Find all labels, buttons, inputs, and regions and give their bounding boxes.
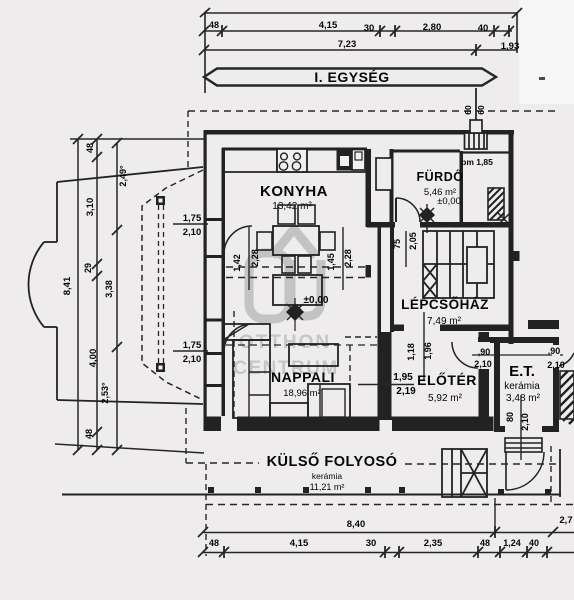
corridor right vertical [559,449,561,497]
bath door opening white [395,221,420,229]
annex left wall lower [56,327,58,400]
wall stub kitchen [366,265,372,278]
chimney block top [465,120,488,149]
corridor bottom dashed [206,504,574,506]
right wall notch [514,251,520,261]
nappali sofa top arm [223,324,270,340]
svg-text:2,49°: 2,49° [118,165,128,187]
watermark logo C [291,260,321,316]
kitchen dim line right [342,227,344,290]
svg-text:ELŐTÉR: ELŐTÉR [417,371,477,388]
ticks top chains [199,8,522,56]
svg-text:8,40: 8,40 [347,519,366,530]
nappali table [289,344,338,366]
top dimension line 0 [204,12,517,14]
svg-text:FÜRDŐ: FÜRDŐ [417,169,464,184]
svg-text:29: 29 [83,263,93,273]
opening 2 jamb mid [204,352,226,355]
svg-text:40: 40 [529,538,539,548]
left chain top end line [70,138,204,140]
svg-text:11,21 m²: 11,21 m² [310,482,345,492]
svg-text:1,24: 1,24 [503,538,521,548]
svg-text:2,7: 2,7 [559,515,572,526]
eloter door to ET opening [477,342,490,369]
svg-text:2,53°: 2,53° [100,382,110,404]
bath door arc [396,198,420,222]
svg-text:40: 40 [478,23,489,34]
svg-text:1,95: 1,95 [393,372,413,383]
annex bottom edge [57,400,203,404]
dot after banner [539,77,545,80]
bottom chain ticks [198,526,558,558]
ET exterior steps [505,438,542,452]
main outer top wall [204,130,515,135]
svg-text:KONYHA: KONYHA [260,183,328,200]
ET exterior door arc [506,452,544,490]
svg-text:I. EGYSÉG: I. EGYSÉG [314,69,389,85]
svg-text:3,10: 3,10 [85,198,96,217]
x mark under chimney [497,212,511,226]
svg-text:48: 48 [480,538,490,548]
hatched chimney right [488,188,504,220]
ET exit dim line [520,395,522,460]
bath drain diamond [420,204,434,233]
kitchen dashed boundary 1 [226,266,365,268]
svg-text:2,80: 2,80 [423,22,442,33]
nappali dashed boundary vertical [349,345,351,420]
annex bay arc [28,242,44,327]
svg-text:2,28: 2,28 [250,249,260,267]
nappali sofa body [233,340,270,418]
corridor bottom line [62,494,561,496]
svg-text:kerámia: kerámia [504,381,540,392]
annex left wall upper [56,182,58,242]
closet dashed line nappali [233,311,235,417]
dashed utility line [188,110,558,112]
svg-text:1,93: 1,93 [501,41,520,52]
door arc eloter to ET [452,342,478,368]
page margin white corner [519,0,574,104]
svg-text:48: 48 [84,429,94,439]
corridor left dashed vertical [185,408,187,463]
left outer wall line [204,130,207,431]
eloter left wall [378,332,392,420]
wall stair hall left outer [390,227,394,332]
bottom chain line E [203,552,574,554]
appliance box [352,150,365,171]
stove burners [281,153,288,160]
kitchen dashed boundary 2 [226,277,365,279]
wall stair hall left inner [378,227,382,332]
watermark logo O [249,253,289,319]
svg-text:48: 48 [209,538,219,548]
left chain bottom end line [55,444,204,453]
svg-text:4,15: 4,15 [290,538,309,549]
E.T. top wall band 2 [478,337,559,343]
stair room door dim line [405,231,407,267]
terrace railing dashed [158,205,160,363]
annex step top [44,241,57,243]
svg-text:1,96: 1,96 [423,342,433,360]
counter divider [276,149,278,172]
bottom wall opening [221,416,237,432]
dashed drop at left [187,111,189,168]
svg-text:1,75: 1,75 [183,340,202,351]
corridor stair box [442,449,487,497]
svg-text:4,15: 4,15 [319,20,338,31]
staircase [423,231,494,298]
svg-text:OTTHON: OTTHON [239,332,331,353]
chair top left [278,205,295,224]
corridor right dashed vertical [550,446,552,504]
svg-text:2,10: 2,10 [520,413,530,431]
chair right [320,232,335,250]
svg-text:1,18: 1,18 [406,343,416,361]
svg-text:48: 48 [85,143,95,153]
ET right wall [553,343,559,432]
svg-text:48: 48 [209,20,219,30]
bath right wall [460,151,464,227]
svg-text:3,38: 3,38 [104,280,114,298]
svg-text:±0,00: ±0,00 [437,196,461,207]
ET cross dim line [472,354,563,356]
svg-text:60: 60 [463,105,473,115]
svg-text:2,10: 2,10 [183,354,202,365]
svg-text:2,19: 2,19 [396,386,416,397]
terrace post bottom [156,363,165,372]
nappali sofa seat bottom [270,403,308,420]
opening 2 jamb top [204,319,226,322]
svg-text:kerámia: kerámia [312,471,343,481]
kitchen inner top wall line [222,148,367,151]
kitchen counter bottom line [225,171,367,173]
bottom wall of building [204,417,494,432]
right extension line top [516,12,518,53]
kitchen door arc [224,226,252,254]
svg-text:2,05: 2,05 [408,232,418,250]
chair top right [298,205,315,224]
svg-text:8,41: 8,41 [62,276,73,295]
svg-text:7,23: 7,23 [338,39,357,50]
svg-text:1,45: 1,45 [326,253,336,271]
washbasin in bath wall [376,158,392,190]
nappali armchair [308,384,350,420]
kitchen table [273,226,319,255]
left chain line C [116,143,118,450]
sideboard below [273,275,322,305]
bottom wall gap below eloter wall [380,420,393,432]
svg-text:60: 60 [476,105,486,115]
svg-text:30: 30 [366,538,377,549]
svg-text:±0,00: ±0,00 [304,295,329,306]
nappali door arc [224,324,252,352]
opening 2 jamb bottom [204,384,226,387]
svg-text:4,00: 4,00 [88,349,99,368]
left chain line A [77,139,79,450]
stove box [277,149,307,172]
svg-text:LÉPCSŐHÁZ: LÉPCSŐHÁZ [401,297,489,312]
kitchen dim line left [248,227,250,290]
right outer wall [509,130,514,344]
top dimension line 2 [204,49,517,51]
eloter right wall [479,332,490,420]
svg-text:2,10: 2,10 [183,227,202,238]
opening 1 jamb top [204,218,226,221]
svg-text:80: 80 [505,412,515,422]
sink dark appliance [337,151,353,171]
north diamond [287,298,303,331]
left inner wall line [222,148,226,417]
svg-text:,90: ,90 [548,346,561,356]
svg-text:E.T.: E.T. [509,363,535,380]
svg-text:2,35: 2,35 [424,538,443,549]
left extension line of top chains [204,13,206,93]
svg-text:pm 1,85: pm 1,85 [461,157,493,167]
bath bottom wall [367,222,509,228]
shaft inner top line [463,151,509,153]
svg-text:2,28: 2,28 [343,249,353,267]
ET right door opening [552,345,560,368]
annex top edge [57,167,203,182]
stair room bottom wall [390,325,404,332]
dim line 1,95 [358,384,414,386]
terrace dashed outline [142,170,203,400]
svg-text:2,10: 2,10 [547,360,565,370]
bath inner top wall line [393,150,460,153]
svg-text:NAPPALI: NAPPALI [271,369,335,385]
vertical line to chimney [475,88,477,148]
svg-text:30: 30 [364,23,375,34]
nappali dashed beam line [226,344,378,346]
watermark logo roof [272,229,316,256]
door dim line eloter [423,332,425,380]
wall bath left [390,149,394,227]
corridor hatch squares [208,487,551,495]
nappali dashed boundary horizontal [345,336,377,338]
bottom extension verticals [494,498,496,534]
wall kitchen right [366,149,372,227]
chairs below [282,256,295,273]
left chain line B [96,139,98,450]
svg-text:2,10: 2,10 [474,359,492,369]
chair left [257,232,272,250]
annex step bottom [44,326,57,328]
hatched block right of ET [560,371,574,424]
svg-text:1,42: 1,42 [232,254,242,272]
I. EGYSEG banner [204,69,496,86]
svg-text:5,92 m²: 5,92 m² [428,393,463,404]
corridor top dashed [186,462,259,464]
terrace post top [156,196,165,205]
ET bottom wall [494,426,505,432]
ET right door arc [559,353,574,366]
opening 1 sill [204,255,226,258]
svg-text:3,48 m²: 3,48 m² [506,393,541,404]
svg-text:1,75: 1,75 [183,213,202,224]
svg-text:KÜLSŐ FOLYOSÓ: KÜLSŐ FOLYOSÓ [267,452,398,470]
svg-text:75: 75 [392,239,402,249]
left chain ticks [73,134,122,455]
bottom chain line D [203,532,574,534]
svg-text:18,96 m²: 18,96 m² [283,388,321,399]
ET left wall [494,343,500,432]
top dimension line 1 [204,30,512,32]
